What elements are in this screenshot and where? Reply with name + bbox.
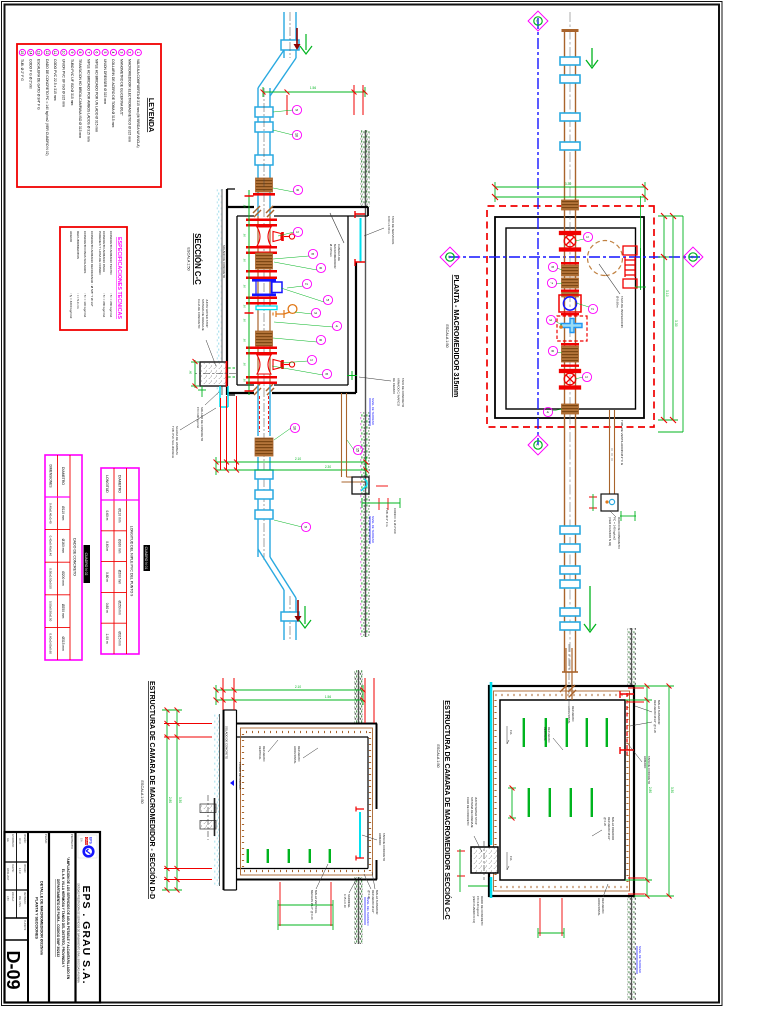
title block divider lines (74, 832, 76, 1003)
svg-text:PC = 140 kg/cm2: PC = 140 kg/cm2 (613, 517, 617, 540)
interior labels (543, 727, 551, 743)
svg-text:5: 5 (103, 52, 107, 54)
svg-text:JUNTA WATER STOP: JUNTA WATER STOP (474, 797, 478, 825)
svg-text:2.80: 2.80 (168, 797, 172, 803)
legend item 10 (61, 49, 67, 55)
pipe wall crossing coil left (562, 200, 579, 210)
section marker D (683, 247, 703, 267)
svg-text:TAPA DE CONCRETO: TAPA DE CONCRETO (401, 378, 405, 408)
planta section line C-C (537, 18, 539, 445)
svg-text:3.30: 3.30 (670, 787, 674, 793)
svg-text:1/50: 1/50 (6, 896, 8, 901)
green dimension lines above plan (658, 216, 678, 420)
svg-text:REFUERZO: REFUERZO (547, 727, 551, 743)
right wall (237, 869, 378, 880)
svg-text:15: 15 (20, 51, 24, 55)
svg-text:TAPA DE CONCRETO: TAPA DE CONCRETO (382, 833, 386, 862)
svg-text:Ø200 mm: Ø200 mm (118, 570, 122, 585)
svg-text:ESCALERA DE GATO Ø 3/4" F G: ESCALERA DE GATO Ø 3/4" F G (37, 59, 41, 110)
svg-text:15: 15 (355, 448, 359, 452)
left dimension line (263, 87, 365, 97)
svg-text:(VER CUADRO N 02): (VER CUADRO N 02) (608, 517, 612, 546)
sump dado below (471, 847, 498, 873)
svg-text:PLANTA - MACROMEDIDOR 315mm: PLANTA - MACROMEDIDOR 315mm (452, 275, 461, 398)
vent pipe plan (614, 410, 616, 494)
svg-text:Ø250 mm: Ø250 mm (61, 604, 65, 619)
svg-text:TUBO PVC UF ISO Ø 315 mm: TUBO PVC UF ISO Ø 315 mm (70, 59, 74, 106)
svg-text:2.10: 2.10 (295, 457, 301, 461)
hatch opening red dashes top (626, 693, 628, 755)
svg-text:@ 0.20: @ 0.20 (367, 890, 371, 900)
svg-text:NIVEL DEL TERRENO: NIVEL DEL TERRENO (366, 897, 370, 926)
niple HD plan 2 (562, 346, 579, 362)
svg-text:HORIZONTAL: HORIZONTAL (597, 898, 601, 916)
svg-text:: fy = 4200 kg/cm2: : fy = 4200 kg/cm2 (69, 293, 73, 319)
legend item 1 (135, 49, 141, 55)
svg-text:D: D (447, 256, 452, 259)
svg-text:LONGITUD DEL NIPLE PVC DEL PUN: LONGITUD DEL NIPLE PVC DEL PUNTO 9 (130, 526, 134, 597)
svg-text:2: 2 (590, 308, 594, 310)
svg-text:ESCALA 1:50: ESCALA 1:50 (436, 744, 440, 767)
svg-text:0.15 x 0.10: 0.15 x 0.10 (343, 894, 347, 908)
svg-text:ARMADO C/ MARCO: ARMADO C/ MARCO (397, 378, 401, 407)
svg-text:Ø 0.60m: Ø 0.60m (616, 296, 620, 308)
svg-text:TRANSICION HD BRIDA-CAMPANA IS: TRANSICION HD BRIDA-CAMPANA ISO Ø 315 mm (78, 59, 82, 138)
planta chamber outer wall (495, 217, 644, 418)
svg-text:RECUBRIMIENTOS: RECUBRIMIENTOS (76, 231, 80, 259)
tapa de inspeccion dashed circle (588, 241, 623, 276)
svg-text:D: D (690, 256, 695, 259)
svg-text:ESTRUCTURA DE CAMARA DE MACROM: ESTRUCTURA DE CAMARA DE MACROMEDIDOR SEC… (443, 700, 452, 919)
svg-text:PAREDES Y LOSA DE FONDO: PAREDES Y LOSA DE FONDO (98, 231, 102, 275)
svg-text:NIPLE HD BRIDADO POR UN LADO Ø: NIPLE HD BRIDADO POR UN LADO Ø 315 mm (95, 59, 99, 132)
rebar dowels left (606, 718, 608, 747)
dado label plan (610, 511, 616, 517)
svg-text:MALLA INFERIOR: MALLA INFERIOR (611, 817, 615, 840)
svg-text:2: 2 (304, 283, 308, 285)
chamber outer wall box (489, 686, 634, 896)
macromedidor section (252, 279, 282, 296)
svg-text:0.80 m: 0.80 m (105, 572, 109, 582)
svg-text:DIMENSIONES: DIMENSIONES (49, 464, 53, 488)
svg-text:SOLADO DE CONCRETO: SOLADO DE CONCRETO (367, 140, 371, 174)
legend item 7 (85, 49, 91, 55)
svg-text:REFUERZO Ø1/2": REFUERZO Ø1/2" (371, 890, 375, 913)
svg-text:13: 13 (37, 51, 41, 55)
svg-text:COLLARIN DE ACERO DE TOMA Ø 31: COLLARIN DE ACERO DE TOMA Ø 315 mm (111, 59, 115, 127)
revision cells (6, 834, 26, 931)
brown lining (241, 728, 373, 875)
svg-text:DADO DE CONCRETO: DADO DE CONCRETO (73, 538, 77, 576)
svg-text:TUB. PVC SAL Ø160mm: TUB. PVC SAL Ø160mm (171, 426, 175, 459)
svg-text:6: 6 (95, 52, 99, 54)
svg-text:C: C (535, 20, 540, 23)
svg-text:CODO PVC 22.5 x 315 mm: CODO PVC 22.5 x 315 mm (53, 59, 57, 101)
svg-text:3.30: 3.30 (565, 182, 572, 186)
svg-text:CODO F G Ø 2"x90: CODO F G Ø 2"x90 (28, 59, 32, 89)
svg-text:ESCALA 1:50: ESCALA 1:50 (187, 247, 191, 270)
svg-text:DADO DE CONCRETO PC = 140 kg/c: DADO DE CONCRETO PC = 140 kg/cm2 (VER CU… (45, 59, 49, 156)
svg-text:REFUERZO Ø1/2" @ 0.20: REFUERZO Ø1/2" @ 0.20 (653, 700, 657, 733)
vent gooseneck above ground (352, 477, 369, 494)
legend item 12 (44, 49, 50, 55)
svg-text:9: 9 (303, 526, 307, 528)
svg-text:FONDO DE CAMARA: FONDO DE CAMARA (238, 762, 242, 790)
svg-text:R.F.O.: R.F.O. (18, 838, 20, 845)
exit elbow (258, 385, 296, 640)
valve 2 plan (560, 370, 581, 390)
rebar dowels middle (591, 788, 593, 817)
top slab with hatch opening (368, 724, 377, 880)
svg-text:0.60x0.60x0.60: 0.60x0.60x0.60 (49, 633, 53, 654)
svg-text:Ø315 mm: Ø315 mm (118, 631, 122, 646)
green cross mark right ceiling (347, 371, 357, 380)
sump box (dado) under floor (200, 361, 227, 387)
niple corrugado 2 (256, 331, 273, 346)
dims right (538, 928, 564, 938)
legend item 11 (52, 49, 58, 55)
svg-text:DETALLE DE MACROMEDIDOR Ø315mm: DETALLE DE MACROMEDIDOR Ø315mm (40, 881, 44, 956)
svg-text:2.30: 2.30 (325, 465, 331, 469)
niple HD plan (corrugado) (562, 265, 579, 276)
labels under chamber (206, 340, 216, 366)
svg-text:SISTEMA DE DRENAJE: SISTEMA DE DRENAJE (470, 797, 474, 828)
svg-text:: r = 5.0 cm: : r = 5.0 cm (76, 293, 80, 309)
legend item 8 (77, 49, 83, 55)
svg-text:: f'c = 280 kg/cm2: : f'c = 280 kg/cm2 (102, 293, 106, 318)
svg-text:D-09: D-09 (3, 950, 23, 989)
svg-text:8: 8 (318, 267, 322, 269)
slope labels (509, 730, 513, 861)
svg-text:10: 10 (292, 426, 296, 430)
svg-text:1: 1 (309, 359, 313, 361)
svg-text:NIVEL DE TERRENO: NIVEL DE TERRENO (371, 398, 375, 426)
svg-text:Ø315 mm: Ø315 mm (61, 636, 65, 651)
svg-text:SOLADO DE CONCRETO: SOLADO DE CONCRETO (200, 407, 204, 442)
svg-text:3: 3 (313, 312, 317, 314)
svg-text:9: 9 (294, 109, 298, 111)
flow arrows entry (296, 28, 298, 44)
svg-text:VALVULA COMPUERTA Ø 315 mm (M/: VALVULA COMPUERTA Ø 315 mm (M/ BRIDA W/ … (136, 59, 140, 148)
legend item 6 (94, 49, 100, 55)
pipe through chamber (258, 216, 270, 385)
floor slab (224, 710, 237, 890)
svg-text:4: 4 (111, 52, 115, 54)
dims right D-D (278, 900, 333, 930)
legend item 13 (36, 49, 42, 55)
svg-text:SECCIÓN C-C: SECCIÓN C-C (193, 233, 202, 285)
svg-text:SOLADO DE CONCRETO: SOLADO DE CONCRETO (222, 245, 226, 279)
svg-text:1.56: 1.56 (325, 695, 331, 699)
dims above (625, 686, 674, 896)
svg-text:UNION PVC UF ISO Ø 315 mm: UNION PVC UF ISO Ø 315 mm (62, 59, 66, 107)
svg-text:TUB. DE VENTILACION Ø 2" F G: TUB. DE VENTILACION Ø 2" F G (620, 420, 624, 466)
svg-text:F'C=100 kg/cm2: F'C=100 kg/cm2 (196, 407, 200, 428)
svg-text:CONCRETO ARMADO TECHO: CONCRETO ARMADO TECHO (109, 231, 113, 275)
svg-text:ESPECIFICACIONES TECNICAS: ESPECIFICACIONES TECNICAS (116, 237, 122, 319)
macromedidor plan (559, 292, 581, 312)
svg-text:0.80 m: 0.80 m (105, 603, 109, 613)
pipe stub through left wall (566, 648, 572, 700)
dims bottom D-D (162, 710, 182, 890)
svg-text:2.10: 2.10 (295, 685, 301, 689)
left wall (237, 724, 378, 738)
svg-text:Ø250 mm: Ø250 mm (118, 601, 122, 616)
EPS GRAU logo (78, 835, 97, 858)
svg-text:6: 6 (550, 266, 554, 268)
svg-text:C: C (535, 444, 540, 447)
waterproofing cyan line bottom (490, 682, 493, 845)
svg-text:3: 3 (119, 52, 123, 54)
svg-text:NIVEL DE TERRENO: NIVEL DE TERRENO (638, 946, 642, 974)
svg-text:ING. CIVIL: ING. CIVIL (18, 896, 20, 908)
svg-text:DIBUJO:: DIBUJO: (23, 864, 25, 873)
legend item 14 (28, 49, 34, 55)
svg-text:ESCALA 1:50: ESCALA 1:50 (140, 780, 144, 803)
svg-text:8: 8 (78, 52, 82, 54)
dado blocks under floor (200, 804, 216, 813)
svg-text:0.40x0.40x0.40: 0.40x0.40x0.40 (49, 536, 53, 557)
svg-text:Ø 315mm: Ø 315mm (329, 244, 333, 257)
svg-text:ENTIDAD PRESTADORA DE SERVICIO: ENTIDAD PRESTADORA DE SERVICIOS DE SANEA… (77, 883, 80, 983)
svg-text:GG.: GG. (6, 838, 8, 843)
svg-text:3.30: 3.30 (178, 797, 182, 803)
svg-text:3.30: 3.30 (674, 320, 678, 327)
sump dimensions (191, 360, 199, 388)
tapa cyan (359, 812, 361, 858)
callout bubbles section (292, 105, 301, 114)
vent pipe section (342, 393, 365, 482)
svg-text:DADO DE CONCRETO: DADO DE CONCRETO (617, 517, 621, 549)
manometro section (256, 305, 297, 318)
chamber inner wall box (500, 700, 625, 880)
section marker C (528, 435, 548, 455)
svg-text:8: 8 (550, 350, 554, 352)
green dims right end of plan (658, 216, 683, 432)
svg-text:MACROMEDIDOR ELECTROMAGNETICO: MACROMEDIDOR ELECTROMAGNETICO Ø 315 mm (128, 59, 132, 142)
svg-text:5: 5 (325, 299, 329, 301)
tapa labels right of hatch (392, 378, 405, 408)
svg-text:CUADRO N 02: CUADRO N 02 (84, 553, 88, 576)
svg-text:REFUERZO: REFUERZO (262, 746, 266, 762)
svg-text:JUNTA WATER STOP: JUNTA WATER STOP (205, 299, 209, 328)
svg-text:CONCRETO PARA SOLADOS: CONCRETO PARA SOLADOS (83, 231, 87, 273)
flow arrow out (584, 586, 596, 632)
svg-text:0.40x0.40x0.40: 0.40x0.40x0.40 (49, 503, 53, 524)
planta red dashed property line (487, 206, 654, 427)
svg-text:CAJA DE CONCRETO: CAJA DE CONCRETO (466, 797, 470, 826)
green dimension lines left of plan (495, 182, 645, 202)
planta section line D-D (445, 256, 700, 258)
svg-text:.60: .60 (189, 370, 193, 375)
svg-text:4: 4 (545, 411, 549, 413)
wall crossing hatch right (253, 384, 274, 395)
dims left D-D (216, 685, 363, 705)
valve 2 section (gate valve) (257, 355, 295, 374)
svg-text:REFUERZO Ø1/2": REFUERZO Ø1/2" (607, 817, 611, 840)
svg-text:3: 3 (548, 319, 552, 321)
entry elbow (258, 50, 296, 96)
svg-text:VERTICAL: VERTICAL (543, 727, 547, 741)
svg-text:7: 7 (549, 282, 553, 284)
svg-text:REFUERZO: REFUERZO (297, 746, 301, 762)
legend box LEYENDA (17, 44, 161, 187)
specifications box ESPECIFICACIONES TECNICAS (60, 227, 127, 330)
valve 1 section (gate valve) (257, 227, 295, 246)
svg-text:Ø160 mm: Ø160 mm (118, 539, 122, 554)
svg-text:MALLA VERTICAL: MALLA VERTICAL (314, 890, 318, 914)
svg-text:2.80: 2.80 (648, 787, 652, 793)
extra flanges plan (561, 262, 579, 264)
svg-text:CODO F G Ø 2"x90: CODO F G Ø 2"x90 (393, 508, 397, 534)
svg-text:SALIDA DE LIMPIEZA: SALIDA DE LIMPIEZA (175, 426, 179, 455)
svg-text:: f'c = 280 kg/cm2: : f'c = 280 kg/cm2 (109, 293, 113, 318)
flow arrows exit (297, 600, 299, 616)
svg-text:10: 10 (62, 51, 66, 55)
red flanges section (246, 219, 277, 222)
section marker D (440, 247, 460, 267)
svg-text:10: 10 (294, 133, 298, 137)
svg-text:F'C=140 kg/cm2: F'C=140 kg/cm2 (476, 896, 480, 917)
svg-text:0.60 x 0.60 m: 0.60 x 0.60 m (387, 216, 391, 234)
svg-text:TUB. Ø 2" F G: TUB. Ø 2" F G (385, 508, 389, 527)
pipe centerline (289, 12, 291, 58)
svg-text:REFUERZO: REFUERZO (571, 706, 575, 722)
interior labels D-D (258, 746, 266, 762)
labels right side D-D (367, 890, 379, 914)
svg-text:@ 0.20: @ 0.20 (603, 817, 607, 827)
svg-text:TAPA DE SERVICIOS: TAPA DE SERVICIOS (391, 216, 395, 244)
svg-text:EL A.H. VILLA HERMOSA Y TANGO: EL A.H. VILLA HERMOSA Y TANGO DEL DISTRI… (61, 869, 65, 968)
svg-text:8: 8 (295, 189, 299, 191)
svg-text:SOLADO DE CONCRETO: SOLADO DE CONCRETO (225, 726, 229, 760)
svg-text:UNION DRESSER Ø 315 mm: UNION DRESSER Ø 315 mm (103, 59, 107, 104)
svg-text:ESCALA 1:50: ESCALA 1:50 (445, 324, 449, 347)
svg-text:VERTICAL: VERTICAL (258, 746, 262, 760)
svg-text:SISTEMA DE DRENAJE: SISTEMA DE DRENAJE (201, 299, 205, 331)
svg-text:8: 8 (318, 339, 322, 341)
chamber right wall (227, 385, 356, 393)
svg-text:2: 2 (128, 52, 132, 54)
svg-text:ARMADO: ARMADO (643, 756, 647, 769)
svg-text:Ø110 mm: Ø110 mm (61, 506, 65, 520)
svg-text:(VER CUADRO N 02): (VER CUADRO N 02) (472, 896, 476, 923)
labels above chamber (364, 228, 384, 236)
svg-text:DEPARTAMENTO DE PIURA - CODIGO: DEPARTAMENTO DE PIURA - CODIGO SNIP 3021… (56, 879, 60, 957)
svg-text:"AMPLIACION DE LOS SERVICIOS D: "AMPLIACION DE LOS SERVICIOS DE AGUA POT… (66, 857, 70, 980)
svg-text:CONCRETO ARMADO PARA: CONCRETO ARMADO PARA (102, 231, 106, 273)
terrain at estructura C-C (627, 628, 636, 686)
chamber ceiling (355, 262, 357, 393)
chamber left wall (227, 207, 368, 216)
svg-text:TAPA DE CONCRETO: TAPA DE CONCRETO (647, 756, 651, 785)
svg-text:11: 11 (53, 51, 57, 55)
svg-text:HORIZONTAL: HORIZONTAL (293, 746, 297, 764)
brown reinforcement lining (494, 691, 630, 891)
svg-text:PLANTA Y SECCIONES: PLANTA Y SECCIONES (35, 897, 39, 939)
svg-text:ACERO: ACERO (69, 231, 73, 243)
svg-text:0.50x0.50x0.50: 0.50x0.50x0.50 (49, 568, 53, 589)
svg-text:GRAU: GRAU (84, 838, 87, 846)
svg-text:MACROMEDIDOR: MACROMEDIDOR (333, 244, 337, 268)
svg-text:7: 7 (86, 52, 90, 54)
svg-text:DIAMETRO: DIAMETRO (61, 467, 65, 485)
svg-text:3.10: 3.10 (665, 290, 669, 297)
svg-text:1: 1 (295, 231, 299, 233)
svg-text:LEYENDA: LEYENDA (147, 98, 156, 132)
legend item 4 (110, 49, 116, 55)
chamber floor (236, 216, 238, 385)
planta main pipe (575, 30, 577, 672)
svg-text:1.00 m: 1.00 m (105, 634, 109, 644)
table CUADRO N 02 dado de concreto (45, 455, 90, 660)
svg-text:0.60 m: 0.60 m (105, 541, 109, 551)
nivel de terreno labels (371, 398, 375, 544)
svg-text:4: 4 (334, 325, 338, 327)
svg-text:HORIZONTAL: HORIZONTAL (567, 706, 571, 724)
svg-text:CONCRETO ARMADO REFORZADO : Ø: CONCRETO ARMADO REFORZADO : Ø 5/8" Y Ø 1… (90, 231, 94, 307)
pvc unions on pipe (560, 57, 580, 65)
svg-text:J.C.Z.: J.C.Z. (18, 868, 20, 874)
callout bubbles plan (583, 232, 592, 241)
svg-text:1: 1 (585, 236, 589, 238)
svg-text:CAJA DE CONCRETO: CAJA DE CONCRETO (197, 299, 201, 329)
svg-text:MALLA SUPERIOR: MALLA SUPERIOR (375, 890, 379, 914)
svg-text:LONGITUD: LONGITUD (105, 475, 109, 493)
labels above (653, 700, 661, 733)
svg-text:SARDINEL: SARDINEL (347, 894, 351, 908)
legend item 9 (69, 49, 75, 55)
svg-text:0.50x0.50x0.50: 0.50x0.50x0.50 (49, 601, 53, 622)
leader lines section (272, 110, 354, 527)
pipe wall crossing coil right (562, 404, 579, 414)
svg-text:14: 14 (28, 51, 32, 55)
svg-text:NIVEL DE TERRENO: NIVEL DE TERRENO (371, 516, 375, 544)
svg-text:1%: 1% (509, 856, 513, 861)
entry pipe run (258, 88, 270, 216)
rebar dowels right (329, 849, 331, 863)
escalera de gato plan (623, 246, 637, 288)
svg-text:6: 6 (310, 253, 314, 255)
entry pipe stub (284, 12, 296, 58)
bypass red dashed box (557, 316, 587, 341)
svg-text:TAPA DE INSPECCION: TAPA DE INSPECCION (620, 296, 624, 328)
svg-text:CAMARA DE: CAMARA DE (337, 244, 341, 261)
legend item 3 (119, 49, 125, 55)
drain pipe stub cyan (220, 386, 228, 407)
svg-text:0.60 m: 0.60 m (105, 510, 109, 520)
transition fitting before wall (256, 178, 273, 192)
flow arrow in (586, 48, 598, 68)
legend item 15 (19, 49, 25, 55)
svg-text:12: 12 (45, 51, 49, 55)
legend item 2 (127, 49, 133, 55)
svg-text:TUB. Ø 2" F G: TUB. Ø 2" F G (20, 59, 24, 81)
svg-text:1%: 1% (509, 730, 513, 735)
svg-text:1.56: 1.56 (310, 86, 316, 90)
title block frame (3, 832, 100, 1003)
terrain at estructura D-D (354, 670, 363, 723)
svg-text:1: 1 (584, 376, 588, 378)
svg-text:CUADRO N 01: CUADRO N 01 (144, 547, 148, 570)
svg-text:MALLA SUPERIOR: MALLA SUPERIOR (657, 700, 661, 724)
section marker C (528, 11, 548, 31)
svg-text:NIPLE HD BRIDADO POR AMBOS LAD: NIPLE HD BRIDADO POR AMBOS LADOS Ø 315 m… (86, 59, 90, 142)
svg-text:1: 1 (136, 52, 140, 54)
access hatch cover (tapa) (360, 218, 362, 262)
svg-text:Ø110 mm: Ø110 mm (118, 508, 122, 522)
svg-text:6: 6 (324, 373, 328, 375)
